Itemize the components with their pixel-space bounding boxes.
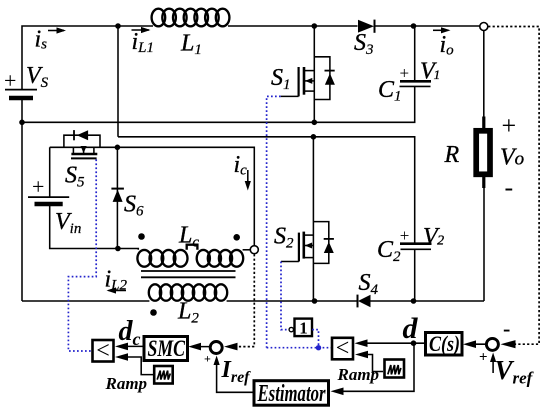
svg-text:d: d xyxy=(403,312,419,345)
node (C2 bottom on rail) xyxy=(411,298,417,304)
svg-text:+: + xyxy=(479,350,488,366)
capacitor C2 xyxy=(400,244,432,301)
wire rail B (S2 drain / C2 top) xyxy=(118,137,415,244)
phase dot L2 xyxy=(150,309,157,316)
diode S3 xyxy=(358,20,414,33)
arrow SMC input from summing circle 1 xyxy=(188,343,209,351)
svg-text:<: < xyxy=(336,336,350,362)
transistor S5 (MOSFET with body diode, horizontal) xyxy=(50,130,118,158)
svg-text:+: + xyxy=(400,64,410,83)
wire Lc left lead xyxy=(118,249,138,250)
arrow d into comparator 2 xyxy=(355,339,425,347)
svg-text:+: + xyxy=(204,352,211,366)
node (VS- / rail A) xyxy=(19,120,25,126)
diode S6 xyxy=(111,189,124,202)
svg-text:R: R xyxy=(444,142,460,168)
svg-text:1: 1 xyxy=(299,319,308,338)
svg-text:SMC: SMC xyxy=(148,336,186,361)
svg-text:C(s): C(s) xyxy=(429,331,460,356)
ramp generator box 2 xyxy=(385,360,405,378)
svg-text:+: + xyxy=(4,68,16,93)
NOT bubble xyxy=(289,327,293,331)
transistor S2 (MOSFET with body diode) xyxy=(281,137,334,301)
Estimator box xyxy=(254,381,329,406)
wire i_c sense line xyxy=(117,147,254,245)
svg-text:Ramp: Ramp xyxy=(337,365,380,384)
transistor S1 (MOSFET with body diode) xyxy=(281,26,335,122)
svg-text:Vo: Vo xyxy=(500,145,524,171)
wire bottom rail xyxy=(22,300,149,302)
arrow d_c into comparator 1 xyxy=(115,343,143,351)
inductor Lc primary xyxy=(137,245,243,267)
wire VS bottom to ground rail xyxy=(21,98,23,301)
wire Vo sense dotted xyxy=(488,27,539,345)
diode S4 xyxy=(358,295,485,308)
gate wire S1 (blue dotted) xyxy=(267,96,281,347)
blue junction node xyxy=(316,345,321,350)
inductor L1 xyxy=(152,9,230,27)
wire rail A (S1 source / C1 bottom) xyxy=(22,86,415,122)
node (S2 drain on rail B) xyxy=(311,134,317,140)
transformer core xyxy=(141,271,236,277)
comparator box 1 xyxy=(93,340,114,362)
arrow C(s) input from summing circle 2 xyxy=(463,340,486,348)
wire I_ref xyxy=(214,356,253,393)
svg-text:-: - xyxy=(503,316,510,341)
ramp generator box 1 xyxy=(154,366,173,384)
resistor R xyxy=(476,117,490,189)
svg-text:Ramp: Ramp xyxy=(105,374,148,393)
battery Vin xyxy=(28,147,118,248)
wire top rail left xyxy=(22,26,153,90)
svg-text:+: + xyxy=(502,111,517,140)
arrow into summing circle 1 xyxy=(224,343,238,351)
node (S6/Vin- junction) xyxy=(115,246,121,252)
node open circle (Vo sense) xyxy=(480,23,488,31)
svg-text:+: + xyxy=(400,226,410,245)
summing circle 1 xyxy=(210,342,222,354)
SMC box xyxy=(144,337,188,361)
phase dot Lc right xyxy=(233,234,240,241)
summing circle 2 xyxy=(486,338,498,350)
arrow into summing circle 2 xyxy=(501,340,516,348)
inductor L2 secondary xyxy=(149,284,227,300)
node open circle (ic sense / Lc) xyxy=(250,246,258,254)
battery VS xyxy=(5,90,37,98)
node (S5/S6/ic junction) xyxy=(115,145,121,151)
wire Lc right lead xyxy=(243,249,251,251)
NOT gate box 1 xyxy=(295,319,313,337)
node (S1 source on rail A) xyxy=(312,120,318,126)
wire top rail right xyxy=(228,25,358,27)
arrow ramp into comparator 2 xyxy=(355,351,383,372)
svg-text:-: - xyxy=(505,173,514,202)
wire ic sense dotted xyxy=(236,254,255,346)
wire S6 branch xyxy=(116,147,118,248)
wire node A down to rail B xyxy=(117,26,119,137)
phase dot Lc left xyxy=(138,233,145,240)
node (S1 drain on top rail) xyxy=(312,23,318,29)
comparator box 2 xyxy=(332,338,353,360)
capacitor C1 xyxy=(400,26,432,86)
blue net 1-box to junction xyxy=(312,330,318,348)
gate wire S2 (blue dotted) xyxy=(281,262,289,330)
node A (VS/L1 junction) xyxy=(115,23,121,29)
node (S3/C1 top) xyxy=(411,23,417,29)
node d xyxy=(411,340,417,346)
arrow V_ref into summing circle 2 xyxy=(490,353,496,374)
C(s) box xyxy=(426,333,463,356)
arrow ramp into comparator 1 xyxy=(115,353,153,374)
node (S2 source on bottom rail) xyxy=(312,298,318,304)
wire load branch xyxy=(483,31,485,121)
svg-text:Estimator: Estimator xyxy=(257,381,326,407)
arrow d into Estimator xyxy=(331,345,415,395)
wire C1 top xyxy=(414,25,484,27)
svg-text:<: < xyxy=(96,338,110,364)
gate wire S5 (blue dotted) xyxy=(68,159,96,351)
blue wire junction to comparator 2 xyxy=(267,347,331,349)
svg-text:+: + xyxy=(32,174,44,199)
